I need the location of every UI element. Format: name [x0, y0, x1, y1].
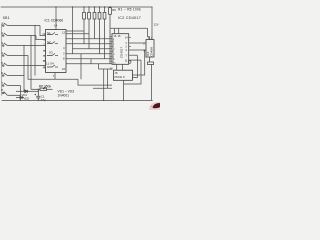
- wire sw7 down: [19, 86, 21, 101]
- svg-text:CD4017: CD4017: [120, 47, 124, 58]
- IC1 CD4066 box: [46, 30, 67, 73]
- wire row y31: [66, 30, 84, 32]
- pushbutton SB7: [2, 83, 20, 86]
- output box pins: [117, 64, 124, 100]
- IC1 internal S4: [47, 65, 58, 67]
- svg-text:11 S4: 11 S4: [46, 62, 54, 66]
- wire sw1 to IC1 pin13: [40, 26, 46, 36]
- wire down x137.4: [133, 55, 138, 77]
- IC1 internal S3: [47, 54, 58, 56]
- svg-text:S3: S3: [49, 51, 53, 55]
- wire pin to IC3 b: [129, 49, 146, 51]
- wire sw4 down: [28, 56, 44, 80]
- svg-text:12: 12: [62, 31, 66, 35]
- svg-text:47μ: 47μ: [41, 98, 46, 102]
- svg-text:12V: 12V: [154, 23, 159, 27]
- wire x107.5: [107, 69, 109, 88]
- wire mesh between IC1 and IC2: [66, 31, 112, 79]
- wire x103.7 to rail: [103, 69, 105, 100]
- IC2 top pins: [110, 28, 150, 39]
- svg-text:10: 10: [62, 67, 66, 71]
- watermark pink corner: [149, 102, 160, 110]
- IC1 internal S1: [47, 33, 58, 35]
- svg-text:SB1: SB1: [3, 16, 10, 20]
- resistor R5: [103, 7, 106, 59]
- wire row y38.7: [66, 38, 112, 40]
- wire IC1 pin7 row: [44, 78, 78, 80]
- svg-text:IC3: IC3: [146, 51, 150, 56]
- wire down x141: [124, 60, 142, 84]
- IC1 extra left stubs: [43, 51, 45, 69]
- junction dots: [20, 6, 125, 101]
- IC1 pin7 bottom: [54, 73, 56, 80]
- svg-text:250Ω F: 250Ω F: [114, 75, 125, 79]
- wire bus x35 down: [34, 26, 36, 76]
- pushbutton SB4: [2, 53, 28, 56]
- pushbutton SB1: [2, 23, 40, 26]
- IC3 box: [146, 40, 154, 57]
- wires IC2 right to IC3: [124, 43, 147, 84]
- diode VD1: [16, 90, 30, 93]
- wire row y88.3: [93, 87, 112, 89]
- resistor R6: [109, 8, 112, 64]
- pushbutton SB8: [2, 92, 20, 96]
- svg-text:11: 11: [43, 64, 46, 68]
- wire row y43.7: [66, 43, 112, 45]
- resistor R2: [88, 7, 91, 49]
- potentiometer RP: [31, 87, 53, 91]
- bus vertical x81: [80, 54, 82, 80]
- wire rail to IC1 pin14: [55, 7, 57, 30]
- resistor R4: [98, 7, 101, 54]
- right supply wire: [151, 7, 153, 40]
- wire row y69: [99, 68, 113, 70]
- node circle at IC2 output: [128, 61, 131, 64]
- IC2 right extra stubs: [129, 38, 131, 47]
- pushbutton SB5: [2, 63, 45, 66]
- capacitor C1: [35, 89, 41, 100]
- IC1 internal S2: [47, 42, 58, 44]
- svg-text:RP 250k: RP 250k: [39, 85, 52, 89]
- svg-text:VD2: VD2: [24, 96, 30, 100]
- svg-text:R6: R6: [112, 8, 116, 12]
- svg-text:12: 12: [43, 59, 46, 63]
- wire row y53.7: [66, 53, 112, 55]
- top supply rail: [1, 6, 152, 8]
- right vertical lower: [151, 65, 153, 101]
- svg-text:CD4069: CD4069: [150, 46, 154, 56]
- bus vertical x98.5: [98, 64, 100, 69]
- IC2 extra left stubs: [110, 36, 112, 61]
- bottom ground rail: [2, 99, 152, 101]
- relay JK 250 ohm box: [113, 70, 132, 80]
- wire step down: [78, 79, 112, 85]
- resistor R3: [93, 7, 96, 39]
- wire down x144.7: [133, 50, 145, 75]
- diode VD2: [16, 96, 24, 99]
- watermark dark blob: [153, 103, 160, 108]
- wire row y33.7: [66, 33, 89, 35]
- wire row y63.7: [66, 63, 112, 65]
- IC3 bottom pin + small box: [148, 57, 154, 65]
- left common bus: [0, 24, 2, 95]
- node wire diode row to C1: [30, 90, 38, 92]
- wire row y48.7: [73, 48, 113, 50]
- svg-text:14: 14: [54, 23, 58, 27]
- svg-text:R1 ~ R5 100k: R1 ~ R5 100k: [118, 8, 141, 12]
- svg-text:S2: S2: [47, 40, 51, 44]
- wire sw2 to IC1 pin1: [36, 36, 46, 40]
- wire row y58.7: [66, 58, 112, 60]
- svg-text:IC2 CD4017: IC2 CD4017: [118, 16, 141, 20]
- left routing verticals: [20, 26, 45, 101]
- lower mesh wires: [44, 69, 112, 100]
- watermark pink dot: [151, 106, 153, 108]
- resistor R1: [83, 7, 86, 44]
- pushbutton SB3: [2, 43, 45, 46]
- wire bus x31 down: [30, 36, 32, 90]
- wire pin to IC3 a: [129, 42, 146, 44]
- bus vertical x91: [90, 59, 92, 64]
- svg-text:S1: S1: [47, 31, 51, 35]
- pushbutton SB6: [2, 73, 24, 76]
- svg-text:10: 10: [110, 66, 113, 70]
- pushbutton SB2: [2, 33, 36, 36]
- svg-text:IC1 CD4066: IC1 CD4066: [45, 18, 64, 22]
- svg-text:1N4001: 1N4001: [58, 94, 70, 98]
- wire bus vertical x72.5: [72, 7, 74, 54]
- IC2 CD4017 box: [112, 34, 129, 65]
- wire bus x24 down: [23, 46, 25, 92]
